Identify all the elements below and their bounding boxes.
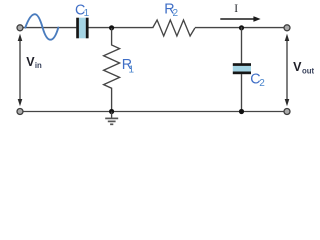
node junction C2 bottom xyxy=(239,109,244,114)
wire top left segment xyxy=(23,27,76,29)
svg-text:V: V xyxy=(26,55,35,69)
label C2 xyxy=(250,71,265,89)
current arrow I xyxy=(220,16,260,22)
node junction R1 top xyxy=(109,25,114,30)
resistor R1 xyxy=(104,28,120,112)
resistor R2 xyxy=(153,20,195,36)
terminal bottom-left xyxy=(17,109,23,115)
wire top right segment xyxy=(195,27,284,29)
terminal top-right xyxy=(284,25,290,31)
Vout measurement arrow xyxy=(285,34,290,106)
node junction C2 top xyxy=(239,25,244,30)
label Vin xyxy=(26,55,42,70)
label C1 xyxy=(75,2,90,19)
svg-text:1: 1 xyxy=(84,8,90,19)
svg-text:2: 2 xyxy=(259,78,265,89)
terminal bottom-right xyxy=(284,109,290,115)
ground xyxy=(105,112,118,125)
wire top middle segment xyxy=(88,27,152,29)
capacitor C2 xyxy=(233,63,251,74)
svg-text:1: 1 xyxy=(129,64,135,75)
label R1 xyxy=(122,57,135,75)
node junction ground xyxy=(109,109,114,114)
source sine wave xyxy=(25,14,58,40)
Vin measurement arrow xyxy=(18,34,23,106)
svg-text:V: V xyxy=(293,60,302,74)
svg-text:out: out xyxy=(302,67,315,76)
terminal top-left xyxy=(17,25,23,31)
wire C2 bottom lead xyxy=(241,74,243,112)
svg-text:I: I xyxy=(234,3,238,15)
wire bottom xyxy=(23,111,284,113)
wire C2 top lead xyxy=(241,27,243,64)
label Vout xyxy=(293,60,314,76)
capacitor C1 xyxy=(76,18,88,39)
label R2 xyxy=(164,2,178,20)
svg-text:in: in xyxy=(35,61,42,70)
svg-text:2: 2 xyxy=(173,8,179,19)
